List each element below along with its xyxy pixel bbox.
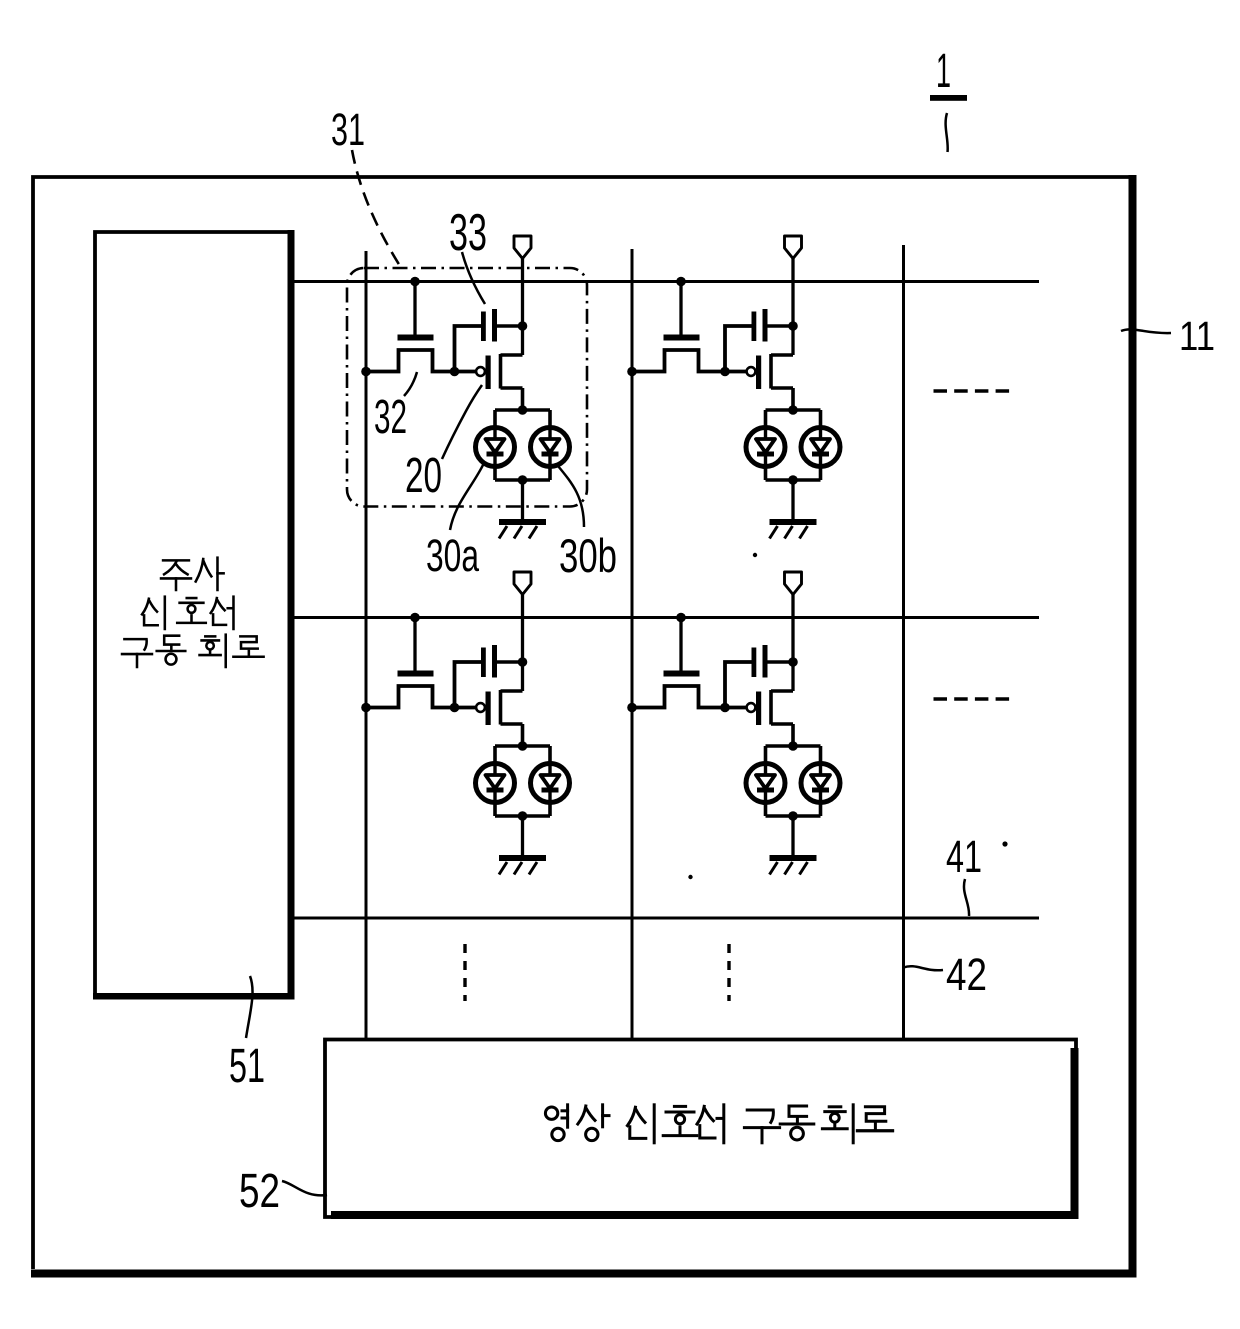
svg-text:51: 51 bbox=[229, 1040, 265, 1093]
svg-text:52: 52 bbox=[239, 1165, 280, 1218]
svg-text:42: 42 bbox=[946, 949, 987, 1000]
svg-text:30b: 30b bbox=[559, 529, 617, 582]
svg-text:11: 11 bbox=[1179, 313, 1215, 359]
svg-text:32: 32 bbox=[374, 391, 407, 444]
svg-text:31: 31 bbox=[331, 104, 365, 155]
svg-text:30a: 30a bbox=[426, 530, 480, 581]
svg-text:1: 1 bbox=[936, 45, 951, 98]
svg-text:20: 20 bbox=[405, 449, 442, 503]
svg-text:41: 41 bbox=[946, 831, 982, 882]
svg-text:33: 33 bbox=[449, 204, 487, 262]
